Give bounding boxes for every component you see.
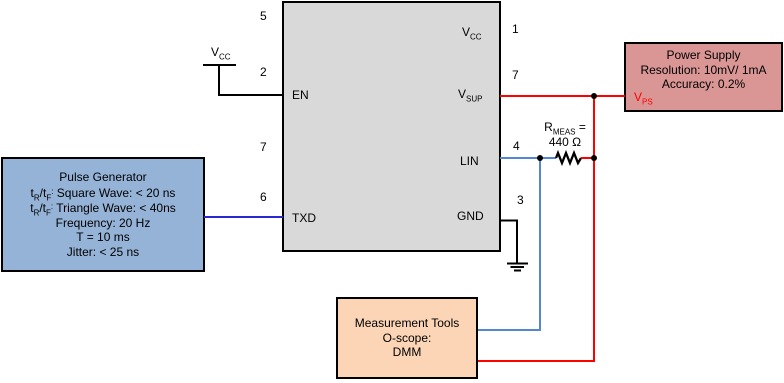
pin 1 number: [512, 22, 519, 36]
power supply box: [624, 42, 783, 112]
junction dot at VSUP branch: [591, 93, 597, 99]
measurement tools box: [336, 297, 478, 379]
pin 7 number (left): [260, 140, 267, 154]
pin 4 number: [513, 139, 520, 153]
wire LIN (LIN pin to resistor): [500, 157, 556, 159]
pin 7 number (right): [512, 68, 519, 82]
pin 5 number: [260, 9, 267, 23]
pulse generator box: [1, 157, 205, 272]
pin label VCC: [462, 25, 482, 39]
op-amp U1 (LIN transceiver IC body): [282, 1, 501, 252]
node VCC supply label: [211, 45, 231, 59]
pin label TXD: [292, 211, 316, 225]
pin label EN: [292, 88, 309, 102]
pin 2 number: [260, 65, 267, 79]
ground symbol: [507, 264, 528, 271]
wire TXD (pulse generator to TXD pin): [204, 216, 283, 218]
resistor RMEAS value label: [540, 120, 590, 149]
pin label LIN: [460, 154, 479, 168]
pin 6 number: [260, 190, 267, 204]
junction dot at LIN branch: [537, 155, 543, 161]
junction dot at resistor output: [591, 155, 597, 161]
wire VCC to EN: [219, 65, 283, 95]
wire VSUP (VSUP pin to power supply): [500, 95, 625, 97]
wire GND pin to ground: [500, 221, 517, 264]
wire blue branch (junction to O-scope): [478, 158, 540, 330]
node VPS label: [634, 90, 653, 104]
wire resistor to red junction: [581, 157, 594, 159]
wire red branch (junction to DMM): [478, 96, 594, 361]
resistor RMEAS: [556, 153, 581, 163]
pin 3 number: [517, 193, 524, 207]
pin label GND: [457, 209, 484, 223]
pin label VSUP: [458, 87, 482, 101]
VCC supply symbol bar: [203, 64, 236, 66]
